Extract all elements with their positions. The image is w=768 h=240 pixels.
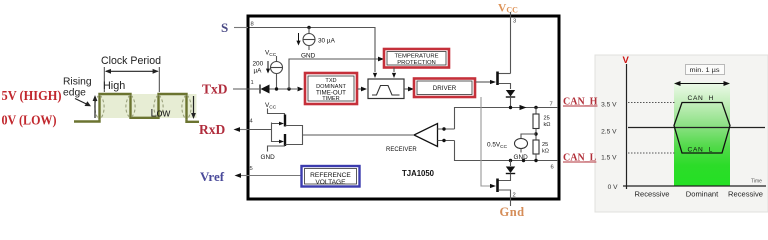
svg-text:CAN_L: CAN_L [563, 153, 597, 164]
driver block highlight [414, 79, 475, 98]
TxD pin wire [233, 88, 259, 90]
TxD to temperature protection wire [289, 59, 379, 89]
slope symbol [372, 86, 400, 96]
resistor R1 25k [535, 108, 537, 115]
node S/30uA junction [307, 26, 310, 29]
reference voltage inner box [305, 169, 357, 185]
CAN_L junction D3 [509, 159, 512, 162]
svg-text:4: 4 [250, 119, 254, 125]
transistor Q1 (high side) [496, 72, 499, 86]
svg-text:7: 7 [550, 102, 553, 108]
TXD dominant timer inner box [308, 76, 354, 101]
chart panel [595, 55, 768, 212]
CAN_H / CAN_L bus level hexagon [674, 103, 730, 154]
svg-text:1.5 V: 1.5 V [601, 155, 617, 162]
dashed transition arc rising edge 1 [95, 95, 99, 120]
Gnd pin stub below box [510, 200, 512, 207]
svg-text:DRIVER: DRIVER [433, 85, 457, 92]
svg-text:Time: Time [751, 179, 762, 185]
RxD stage gnd lead [268, 146, 286, 152]
svg-text:kΩ: kΩ [544, 122, 551, 128]
svg-text:µA: µA [254, 68, 263, 75]
clock period left tick [103, 67, 105, 92]
svg-text:Rising: Rising [63, 77, 92, 88]
receiver output wire [303, 134, 415, 136]
dominant green band [674, 82, 730, 186]
svg-text:8: 8 [251, 22, 254, 28]
dashed transition arc rising edge 2 [154, 95, 158, 118]
temp protection to slope wire [393, 68, 395, 73]
svg-text:1: 1 [251, 80, 254, 86]
arrow into timer box [298, 87, 304, 92]
svg-text:5V (HIGH): 5V (HIGH) [2, 88, 62, 103]
svg-text:0V (LOW): 0V (LOW) [2, 113, 57, 128]
svg-text:Low: Low [151, 108, 171, 120]
CAN_L net wire [455, 141, 559, 161]
D3 to Q2 wire [499, 174, 511, 181]
y axis [626, 64, 628, 189]
S net wire to slope control [250, 28, 376, 73]
I2 to TxD net wire [276, 74, 278, 90]
CAN_L junction R2 [534, 159, 537, 162]
svg-text:VCC: VCC [265, 50, 277, 59]
RxD stage vcc lead [268, 109, 285, 116]
1.5V dotted line [628, 152, 676, 154]
slope to driver wire [404, 88, 408, 90]
Vcc pin wire [510, 12, 512, 74]
svg-text:GND: GND [261, 154, 276, 161]
Vref pin wire [248, 175, 302, 177]
x axis [623, 185, 766, 187]
svg-text:VCC: VCC [265, 102, 277, 111]
svg-text:Recessive: Recessive [728, 190, 763, 199]
current direction arrow I2 [267, 61, 269, 70]
svg-text:CAN_H: CAN_H [563, 97, 598, 108]
svg-text:RxD: RxD [199, 122, 225, 137]
svg-text:Clock Period: Clock Period [101, 55, 161, 67]
svg-text:0.5VCC: 0.5VCC [487, 142, 508, 151]
transistor Q2 (low side) [496, 179, 499, 193]
svg-text:CAN H: CAN H [688, 95, 715, 102]
svg-text:TIMER: TIMER [322, 96, 339, 102]
CAN_H net wire [455, 108, 559, 130]
svg-text:TxD: TxD [202, 82, 228, 97]
svg-text:0 V: 0 V [608, 184, 618, 191]
TXD dominant timer block U2 highlight [305, 73, 357, 104]
svg-text:6: 6 [551, 165, 554, 171]
RxD gate bus [272, 123, 281, 143]
RxD pin arrow out [239, 129, 248, 131]
svg-text:3.5 V: 3.5 V [601, 102, 617, 109]
junction TxD/tempsense [287, 87, 290, 90]
arrow into temperature protection [378, 57, 384, 62]
junction R1/R2/Vmid [534, 132, 537, 135]
svg-text:PROTECTION: PROTECTION [397, 60, 436, 66]
svg-text:30 µA: 30 µA [318, 38, 336, 45]
Vcc stub to I2 [276, 56, 278, 62]
temperature protection block highlight [384, 49, 449, 68]
svg-text:RECEIVER: RECEIVER [386, 147, 417, 153]
resistor R2 25k [533, 140, 539, 154]
IC outer box [248, 16, 559, 199]
dashed transition arc falling edge 2 [182, 95, 186, 120]
slope control block [368, 79, 404, 99]
transistor Q3 (upper) [284, 115, 286, 127]
svg-text:Vref: Vref [200, 169, 225, 184]
arrow into slope box top left [373, 73, 377, 78]
Q4 drain bus [286, 135, 303, 145]
svg-text:High: High [103, 80, 125, 92]
D2 to CAN_H wire [510, 97, 512, 108]
junction TxD/I2 [275, 87, 278, 90]
dashed transition arc falling edge 1 [126, 95, 130, 118]
Vcc to Q1 wire [499, 73, 511, 75]
Q1 gate wire from driver [476, 81, 491, 83]
S pin wire [234, 27, 248, 29]
svg-text:S: S [221, 20, 228, 35]
TxD net wire [270, 88, 298, 90]
I1 gnd stub [308, 46, 310, 51]
clock period right tick [158, 67, 160, 92]
svg-text:kΩ: kΩ [542, 149, 549, 155]
svg-text:2: 2 [513, 193, 516, 199]
CAN_H direction arrow [520, 105, 527, 110]
CAN_L junction gnd stub [522, 159, 525, 162]
svg-text:CAN L: CAN L [688, 147, 713, 154]
diode D1 at TxD [259, 85, 261, 94]
diode D2 [506, 90, 515, 97]
CAN_H junction D2 [509, 106, 512, 109]
clock pulse fill band [100, 94, 197, 118]
svg-text:2.5 V: 2.5 V [601, 129, 617, 136]
receiver input stubs [438, 128, 455, 130]
svg-text:200: 200 [253, 61, 264, 68]
CAN_H junction R1 [534, 106, 537, 109]
Q2 gate wire from driver [481, 97, 490, 186]
svg-text:25: 25 [544, 116, 550, 122]
timer to slope wire [358, 88, 362, 90]
2.5V solid line [628, 127, 765, 129]
30uA current source wire [308, 28, 310, 34]
voltage source 0.5Vcc [515, 139, 528, 149]
Vref arrow out [240, 175, 248, 177]
clock period double arrow [106, 70, 158, 72]
svg-text:edge: edge [63, 88, 86, 99]
0.5Vcc gnd stub [520, 149, 522, 153]
0.5Vcc source wire [521, 134, 536, 139]
rising edge up arrow [94, 99, 96, 118]
svg-text:VCC: VCC [498, 3, 518, 15]
diode D3 [510, 161, 512, 167]
svg-text:25: 25 [542, 142, 548, 148]
RxD pin wire [248, 129, 272, 131]
svg-text:3: 3 [513, 19, 516, 25]
svg-text:Recessive: Recessive [634, 190, 669, 199]
reference voltage block highlight [302, 166, 360, 187]
svg-text:Dominant: Dominant [686, 190, 719, 199]
Q3 drain bus [286, 126, 303, 136]
current source I1 30uA [303, 34, 315, 46]
svg-text:TEMPERATURE: TEMPERATURE [394, 54, 438, 60]
rising edge pointer arrow [75, 99, 88, 105]
svg-text:min. 1 µs: min. 1 µs [690, 67, 720, 74]
3.5V dotted line [628, 102, 676, 104]
svg-text:VOLTAGE: VOLTAGE [315, 179, 346, 186]
driver inner box [417, 81, 472, 95]
svg-text:TJA1050: TJA1050 [402, 169, 434, 178]
temperature protection inner box [387, 52, 446, 66]
falling edge down arrow [193, 96, 195, 115]
min 1us double arrow [677, 83, 727, 85]
min 1 us box [686, 65, 725, 75]
svg-text:REFERENCE: REFERENCE [310, 172, 351, 179]
svg-text:Gnd: Gnd [500, 205, 525, 219]
current direction arrow I1 [298, 33, 300, 42]
receiver comparator U3 [414, 124, 438, 147]
clock square wave [74, 94, 199, 122]
current source I2 200uA [271, 62, 283, 74]
svg-text:5: 5 [250, 166, 253, 172]
transistor Q4 (lower) [284, 134, 286, 146]
